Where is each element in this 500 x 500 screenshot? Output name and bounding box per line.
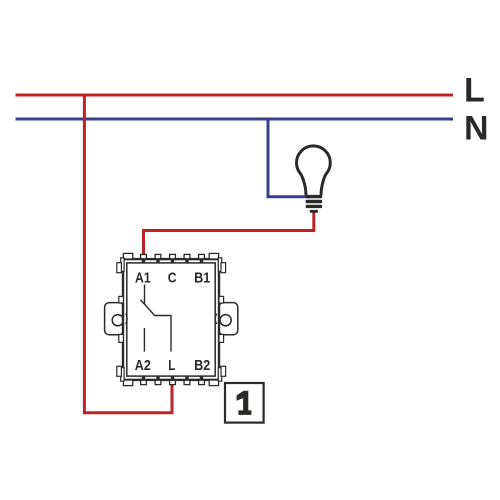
switch S1: mechanism body outer frame xyxy=(123,259,219,380)
switch contact: A1 fixed lead xyxy=(144,285,146,305)
svg-text:A2: A2 xyxy=(135,358,151,374)
switch S1: right corner claw bars xyxy=(218,258,225,381)
lamp base contact tip xyxy=(310,210,318,213)
lamp screw thread bar 2 xyxy=(306,200,323,203)
wire N bus (blue neutral line) xyxy=(16,118,454,121)
switch contact: A2 open stub xyxy=(143,328,145,352)
switch S1: right mounting ear xyxy=(219,303,238,335)
switch S1: left corner claw bars xyxy=(117,258,124,381)
switch S1: left mounting ear xyxy=(105,303,124,335)
wire: L bus down-left-up to switch terminal L (red) xyxy=(84,95,172,413)
wire: N bus to lamp base (blue) xyxy=(268,119,309,197)
switch S1: bottom rail claw marks xyxy=(142,376,203,380)
switch S1: top edge terminal tabs xyxy=(123,253,218,259)
lamp screw thread bar 3 xyxy=(306,205,323,208)
unit number label 1 xyxy=(237,391,252,415)
svg-text:B2: B2 xyxy=(194,358,210,374)
svg-text:A1: A1 xyxy=(135,271,151,287)
switch contact: lever arm to common L xyxy=(145,304,172,351)
lamp (bulb glass envelope) xyxy=(297,146,331,194)
svg-text:B1: B1 xyxy=(194,271,210,287)
unit number box xyxy=(225,383,264,423)
switch contact: seat tick xyxy=(140,300,144,305)
svg-text:L: L xyxy=(168,358,175,374)
svg-text:L: L xyxy=(464,72,485,110)
switch S1: bottom edge terminal tabs xyxy=(123,380,218,386)
switch S1: top rail claw marks xyxy=(142,259,203,263)
svg-text:C: C xyxy=(168,271,177,287)
switch S1: mechanism body inner frame xyxy=(127,263,215,376)
wire: lamp base to switch terminal A1 (red) xyxy=(144,211,314,258)
wire L bus (red live line) xyxy=(16,94,454,97)
lamp screw thread bar 1 xyxy=(306,195,323,198)
switch S1: right edge spring bulge xyxy=(215,314,217,325)
svg-text:N: N xyxy=(464,110,489,148)
switch S1: left edge spring bulge xyxy=(126,314,128,325)
